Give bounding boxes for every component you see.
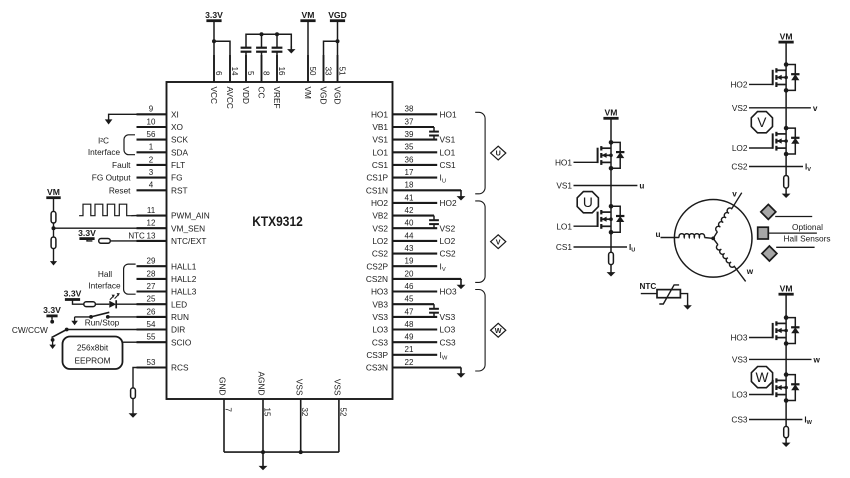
- node marker diamond W: [491, 323, 506, 337]
- wire VS2 phase node: [785, 90, 787, 128]
- svg-text:33: 33: [324, 67, 333, 76]
- ground (CS2N): [460, 278, 462, 281]
- pin stub XI (pin 9): [137, 113, 167, 115]
- resistor R_VM1: [51, 211, 56, 223]
- supply VM (phase W): [779, 293, 794, 296]
- pin stub SDA (pin 1): [137, 151, 167, 153]
- junction (VM_SEN): [52, 226, 56, 230]
- svg-text:HO3: HO3: [371, 287, 388, 297]
- junction: [106, 315, 110, 319]
- winding Lu: [679, 234, 705, 238]
- svg-text:11: 11: [147, 206, 156, 215]
- svg-text:CS1: CS1: [556, 242, 573, 252]
- svg-text:54: 54: [147, 320, 156, 329]
- ground (RCS): [132, 399, 134, 415]
- svg-text:HO1: HO1: [371, 109, 388, 119]
- wire VS3 phase node: [785, 344, 787, 375]
- svg-text:HO3: HO3: [730, 333, 747, 343]
- svg-text:VGD: VGD: [328, 10, 347, 20]
- supply VM (phase U): [603, 117, 618, 120]
- wire to RUN pin: [108, 316, 137, 318]
- svg-text:52: 52: [338, 408, 347, 417]
- svg-text:V: V: [496, 237, 501, 246]
- svg-text:35: 35: [405, 143, 414, 152]
- svg-text:27: 27: [147, 282, 156, 291]
- transistor QVL (low side): [772, 133, 774, 148]
- winding Lv: [710, 191, 741, 238]
- svg-text:39: 39: [405, 130, 414, 139]
- svg-text:VGD: VGD: [319, 87, 329, 105]
- IC U1 KTX9312 body: [167, 82, 393, 399]
- svg-text:VM: VM: [302, 10, 315, 20]
- pin stub HO3 (pin 46): [393, 290, 438, 292]
- wire branch to AVCC: [214, 41, 230, 82]
- pin stub HALL3 (pin 27): [137, 290, 167, 292]
- pin stub RST (pin 4): [137, 189, 167, 191]
- wire ground bus: [224, 451, 339, 453]
- svg-text:CC: CC: [257, 87, 267, 99]
- junction: [275, 32, 279, 36]
- LED emission arrows: [110, 296, 113, 300]
- svg-text:Hall: Hall: [98, 269, 112, 279]
- svg-text:VM_SEN: VM_SEN: [171, 223, 205, 233]
- svg-text:SDA: SDA: [171, 147, 189, 157]
- ground (digital/analog): [262, 452, 264, 467]
- capacitor bootstrap C_VB2 (VB2-VS2): [433, 216, 435, 221]
- wire: [73, 300, 84, 305]
- bracket phase W group: [475, 290, 485, 371]
- star point junction: [711, 237, 715, 241]
- svg-text:VS3: VS3: [732, 355, 748, 365]
- svg-text:3: 3: [149, 168, 154, 177]
- svg-text:I²C: I²C: [98, 136, 109, 146]
- pin stub HALL1 (pin 29): [137, 265, 167, 267]
- svg-text:28: 28: [147, 269, 156, 278]
- resistor R_VM2: [51, 237, 56, 249]
- pin stub VCC (pin 6): [213, 55, 215, 82]
- svg-text:v: v: [732, 190, 737, 199]
- svg-text:LO1: LO1: [372, 147, 388, 157]
- wire CS3 sense node: [785, 401, 787, 427]
- svg-text:14: 14: [230, 67, 239, 76]
- svg-text:22: 22: [405, 358, 414, 367]
- svg-text:VS2: VS2: [372, 223, 388, 233]
- svg-text:VREF: VREF: [272, 87, 282, 109]
- Hall bracket: [124, 264, 136, 294]
- pin stub LO2 (pin 44): [393, 240, 438, 242]
- svg-text:v: v: [813, 104, 818, 113]
- svg-text:CS3: CS3: [440, 337, 457, 347]
- svg-text:15: 15: [263, 408, 272, 417]
- wire VM to QWH drain: [785, 294, 787, 317]
- svg-text:Fault: Fault: [112, 160, 131, 170]
- ground (CS1N): [460, 189, 462, 192]
- svg-text:U: U: [496, 149, 501, 158]
- svg-text:NTC: NTC: [640, 282, 657, 291]
- svg-text:Optional: Optional: [792, 222, 823, 232]
- svg-text:HALL1: HALL1: [171, 261, 197, 271]
- svg-text:LED: LED: [171, 299, 187, 309]
- junction: [89, 315, 93, 319]
- pin stub VGD (pin 51): [337, 55, 339, 82]
- pin stub SCIO (pin 55): [137, 341, 167, 343]
- capacitor C1 (VDD): [241, 47, 252, 49]
- EEPROM U2 box: [63, 337, 123, 370]
- capacitor bootstrap C_VB3 (VB3-VS3): [433, 304, 435, 309]
- svg-text:CS1: CS1: [440, 160, 457, 170]
- svg-text:6: 6: [214, 71, 223, 76]
- wire hall sensor 2: [768, 232, 817, 234]
- svg-text:XI: XI: [171, 109, 179, 119]
- svg-text:AVCC: AVCC: [225, 87, 235, 109]
- wire NTC left lead: [641, 293, 657, 295]
- pin stub NTC/EXT (pin 13): [137, 240, 167, 242]
- wire CS2 sense node: [785, 154, 787, 176]
- svg-text:LO3: LO3: [440, 325, 456, 335]
- svg-text:w: w: [813, 355, 821, 364]
- svg-text:LO1: LO1: [440, 147, 456, 157]
- switch SW_RUN lever: [91, 312, 109, 317]
- svg-text:u: u: [656, 230, 661, 239]
- pin stub RUN (pin 26): [137, 316, 167, 318]
- pin stub VGD (pin 33): [323, 55, 325, 82]
- svg-text:SCK: SCK: [171, 135, 189, 145]
- svg-text:38: 38: [405, 105, 414, 114]
- svg-text:37: 37: [405, 117, 414, 126]
- transistor QWH (high side): [772, 323, 774, 338]
- pin stub CC (pin 8): [261, 55, 263, 82]
- supply 3.3V (DIR switch): [46, 314, 57, 317]
- svg-text:2: 2: [149, 155, 154, 164]
- wire to LED pin: [116, 303, 136, 305]
- svg-text:LO1: LO1: [556, 221, 572, 231]
- svg-text:50: 50: [308, 67, 317, 76]
- svg-text:NTC/EXT: NTC/EXT: [171, 236, 207, 246]
- svg-text:CW/CCW: CW/CCW: [12, 325, 48, 335]
- pin stub VM_SEN (pin 12): [137, 227, 167, 229]
- pin stub AGND (pin 15): [262, 399, 264, 452]
- svg-text:SCIO: SCIO: [171, 337, 192, 347]
- svg-text:26: 26: [147, 307, 156, 316]
- svg-text:VS2: VS2: [440, 223, 456, 233]
- resistor R_sense V: [784, 176, 789, 189]
- junction: [336, 39, 340, 43]
- svg-text:19: 19: [405, 257, 414, 266]
- svg-text:VM: VM: [780, 283, 793, 293]
- svg-text:55: 55: [147, 333, 156, 342]
- supply VM (pin 50): [300, 19, 315, 22]
- wire: [87, 239, 92, 241]
- wire capacitor bus: [246, 34, 291, 48]
- ground (CS3N): [460, 366, 462, 369]
- svg-text:HO1: HO1: [555, 157, 572, 167]
- ground (XI): [109, 114, 137, 119]
- svg-text:Run/Stop: Run/Stop: [85, 317, 120, 327]
- svg-text:7: 7: [224, 408, 233, 413]
- svg-text:3.3V: 3.3V: [205, 10, 223, 20]
- svg-text:VM: VM: [605, 108, 618, 118]
- pin stub CS3P (pin 21): [393, 354, 438, 356]
- svg-text:w: w: [746, 267, 754, 276]
- svg-text:HO2: HO2: [371, 198, 388, 208]
- node marker octagon U: [577, 192, 598, 213]
- svg-text:CS3: CS3: [731, 415, 748, 425]
- pin stub CS2 (pin 43): [393, 253, 438, 255]
- svg-text:DIR: DIR: [171, 325, 185, 335]
- svg-text:44: 44: [405, 231, 414, 240]
- svg-text:AGND: AGND: [257, 372, 267, 396]
- svg-text:W: W: [495, 326, 502, 335]
- svg-text:CS2P: CS2P: [366, 261, 388, 271]
- pin stub GND (pin 7): [223, 399, 225, 452]
- svg-text:256x8bit: 256x8bit: [77, 343, 109, 353]
- svg-text:RUN: RUN: [171, 312, 189, 322]
- svg-text:53: 53: [147, 358, 156, 367]
- transistor QUH (high side): [597, 148, 599, 163]
- wire EEPROM to SCIO: [123, 341, 137, 343]
- svg-text:Hall Sensors: Hall Sensors: [783, 233, 830, 243]
- wire motor u lead: [661, 237, 680, 239]
- svg-text:Interface: Interface: [88, 147, 121, 157]
- pin stub PWM_AIN (pin 11): [137, 215, 167, 217]
- svg-text:Reset: Reset: [109, 185, 131, 195]
- junction: [212, 39, 216, 43]
- hall sensor square 2: [758, 227, 769, 239]
- supply 3.3V (NTC): [79, 237, 94, 240]
- pin stub CS1 (pin 36): [393, 164, 438, 166]
- svg-text:LO3: LO3: [372, 325, 388, 335]
- node marker diamond V: [491, 235, 506, 249]
- pin stub LO1 (pin 35): [393, 151, 438, 153]
- svg-text:51: 51: [338, 67, 347, 76]
- bracket phase V group: [475, 201, 485, 283]
- ground (phase V): [785, 188, 787, 194]
- svg-text:VGD: VGD: [333, 87, 343, 105]
- pin stub VSS (pin 32): [300, 399, 302, 452]
- svg-text:CS2: CS2: [731, 162, 748, 172]
- pin stub CS2N (pin 20): [393, 278, 462, 280]
- svg-text:VS1: VS1: [440, 135, 456, 145]
- wire: [95, 303, 109, 305]
- svg-text:VB1: VB1: [372, 122, 388, 132]
- svg-text:HO2: HO2: [730, 80, 747, 90]
- svg-text:42: 42: [405, 206, 414, 215]
- svg-text:48: 48: [405, 320, 414, 329]
- svg-text:56: 56: [147, 130, 156, 139]
- svg-text:CS2: CS2: [372, 249, 389, 259]
- motor M1 body (circle): [674, 200, 752, 278]
- svg-text:36: 36: [405, 155, 414, 164]
- svg-text:5: 5: [246, 71, 255, 76]
- wire VM to QVH drain: [785, 42, 787, 64]
- wire branch to pin 33: [324, 41, 338, 82]
- supply 3.3V (LED): [65, 298, 80, 301]
- pin stub HALL2 (pin 28): [137, 278, 167, 280]
- wire NTC right lead: [680, 294, 687, 306]
- ground (phase W): [785, 438, 787, 444]
- svg-text:VS2: VS2: [732, 103, 748, 113]
- supply VGD (pins 33/51): [330, 19, 345, 22]
- svg-text:45: 45: [405, 295, 414, 304]
- svg-text:FLT: FLT: [171, 160, 185, 170]
- svg-text:LO2: LO2: [372, 236, 388, 246]
- pin stub VREF (pin 16): [276, 55, 278, 82]
- svg-text:VS3: VS3: [440, 312, 456, 322]
- svg-text:13: 13: [147, 231, 156, 240]
- svg-text:3.3V: 3.3V: [78, 228, 96, 238]
- thermistor strike line: [659, 285, 679, 304]
- svg-text:21: 21: [405, 345, 414, 354]
- wire to NTC/EXT: [111, 240, 137, 242]
- svg-text:32: 32: [300, 408, 309, 417]
- svg-text:PWM_AIN: PWM_AIN: [171, 211, 210, 221]
- wire hall sensor 3: [776, 246, 814, 248]
- svg-text:3.3V: 3.3V: [64, 289, 82, 299]
- svg-text:FG: FG: [171, 173, 183, 183]
- svg-text:VS1: VS1: [556, 181, 572, 191]
- svg-text:NTC: NTC: [128, 231, 145, 240]
- transistor QWL (low side): [772, 380, 774, 395]
- svg-text:17: 17: [405, 168, 414, 177]
- transistor QUL (low side): [597, 212, 599, 227]
- svg-text:16: 16: [277, 67, 286, 76]
- svg-text:46: 46: [405, 282, 414, 291]
- ground (phase U): [610, 265, 612, 273]
- ground (DIR switch): [52, 340, 54, 346]
- switch SW_DIR lever: [52, 330, 67, 338]
- svg-text:XO: XO: [171, 122, 184, 132]
- pin stub HO1 (pin 38): [393, 113, 438, 115]
- svg-text:HALL2: HALL2: [171, 274, 197, 284]
- pin stub AVCC (pin 14): [229, 55, 231, 82]
- svg-text:VS3: VS3: [372, 312, 388, 322]
- pin stub VB3 (pin 45): [393, 303, 435, 305]
- pin stub VB1 (pin 37): [393, 126, 435, 128]
- contact (3.3V throw): [50, 320, 54, 324]
- contact (ground throw): [51, 338, 55, 342]
- svg-text:CS1N: CS1N: [366, 185, 388, 195]
- svg-text:FG Output: FG Output: [92, 173, 131, 183]
- svg-text:RCS: RCS: [171, 363, 189, 373]
- svg-text:10: 10: [147, 117, 156, 126]
- wire VM to QUH drain: [610, 118, 612, 142]
- wire to DIR pin: [67, 329, 137, 331]
- pin stub SCK (pin 56): [137, 139, 167, 141]
- svg-text:LO3: LO3: [732, 390, 748, 400]
- ground (RUN switch): [74, 317, 76, 322]
- wire: [75, 316, 91, 318]
- svg-text:KTX9312: KTX9312: [252, 213, 303, 229]
- resistor R_CS: [131, 388, 136, 399]
- junction: [260, 32, 264, 36]
- svg-text:VM: VM: [780, 31, 793, 41]
- svg-text:HALL3: HALL3: [171, 287, 197, 297]
- svg-text:VSS: VSS: [294, 379, 304, 396]
- svg-text:V: V: [757, 115, 767, 130]
- svg-text:VCC: VCC: [209, 87, 219, 105]
- pin stub VSS (pin 52): [338, 399, 340, 452]
- svg-text:3.3V: 3.3V: [43, 305, 61, 315]
- pin stub LO3 (pin 48): [393, 328, 438, 330]
- wire: [53, 223, 55, 237]
- svg-text:W: W: [755, 370, 768, 385]
- svg-text:VS1: VS1: [372, 135, 388, 145]
- pin stub HO2 (pin 41): [393, 202, 438, 204]
- svg-text:Interface: Interface: [88, 281, 121, 291]
- node marker octagon W: [751, 367, 772, 388]
- capacitor bootstrap C_VB1 (VB1-VS1): [433, 127, 435, 132]
- svg-text:RST: RST: [171, 185, 188, 195]
- svg-text:VB3: VB3: [372, 299, 388, 309]
- pin stub FLT (pin 2): [137, 164, 167, 166]
- pin stub CS3 (pin 49): [393, 341, 438, 343]
- I2C bracket: [124, 135, 135, 155]
- svg-text:40: 40: [405, 219, 414, 228]
- thermistor RT1 body: [657, 290, 680, 298]
- wire VS1 phase node: [610, 168, 612, 206]
- resistor R_sense W: [784, 426, 789, 437]
- pin stub XO (pin 10): [137, 126, 167, 128]
- pin stub CS1N (pin 18): [393, 189, 462, 191]
- svg-text:49: 49: [405, 333, 414, 342]
- svg-text:12: 12: [147, 219, 156, 228]
- pin stub VM (pin 50): [307, 55, 309, 82]
- hall sensor diamond 1: [761, 204, 776, 219]
- LED D1: [109, 301, 116, 308]
- pin stub VS2 (pin 40): [393, 227, 438, 229]
- svg-text:8: 8: [262, 71, 271, 76]
- pin stub RCS (pin 53): [137, 366, 167, 368]
- svg-text:VDD: VDD: [241, 87, 251, 105]
- svg-text:u: u: [639, 182, 644, 191]
- resistor R_LED: [84, 302, 96, 307]
- node marker octagon V: [751, 112, 772, 133]
- PWM waveform (PWM_AIN): [79, 204, 131, 216]
- svg-text:CS2: CS2: [440, 249, 457, 259]
- wire RCS: [133, 368, 137, 388]
- junction: [261, 450, 265, 454]
- bracket phase U group: [475, 112, 485, 194]
- resistor R_sense U: [609, 252, 614, 264]
- svg-text:HO1: HO1: [440, 109, 457, 119]
- pin stub CS2P (pin 19): [393, 265, 438, 267]
- svg-text:CS3: CS3: [372, 337, 389, 347]
- svg-text:EEPROM: EEPROM: [75, 355, 111, 365]
- node marker diamond U: [491, 146, 506, 160]
- svg-text:CS3N: CS3N: [366, 363, 388, 373]
- svg-text:25: 25: [147, 295, 156, 304]
- supply VM (divider): [46, 196, 60, 199]
- ground (cap bus): [290, 46, 292, 50]
- svg-text:GND: GND: [218, 377, 228, 395]
- svg-text:U: U: [583, 195, 593, 210]
- wire: [53, 198, 55, 212]
- svg-text:CS3P: CS3P: [366, 350, 388, 360]
- pin stub DIR (pin 54): [137, 328, 167, 330]
- svg-text:CS1: CS1: [372, 160, 389, 170]
- pin stub VS3 (pin 47): [393, 316, 438, 318]
- svg-text:HO3: HO3: [440, 287, 457, 297]
- supply VM (phase V): [779, 41, 794, 44]
- ground (NTC): [687, 304, 689, 306]
- svg-text:18: 18: [405, 181, 414, 190]
- svg-text:47: 47: [405, 307, 414, 316]
- svg-text:43: 43: [405, 244, 414, 253]
- svg-text:VB2: VB2: [372, 211, 388, 221]
- wire to VM_SEN: [54, 227, 137, 229]
- svg-text:1: 1: [149, 143, 154, 152]
- capacitor C2 (CC): [261, 34, 263, 47]
